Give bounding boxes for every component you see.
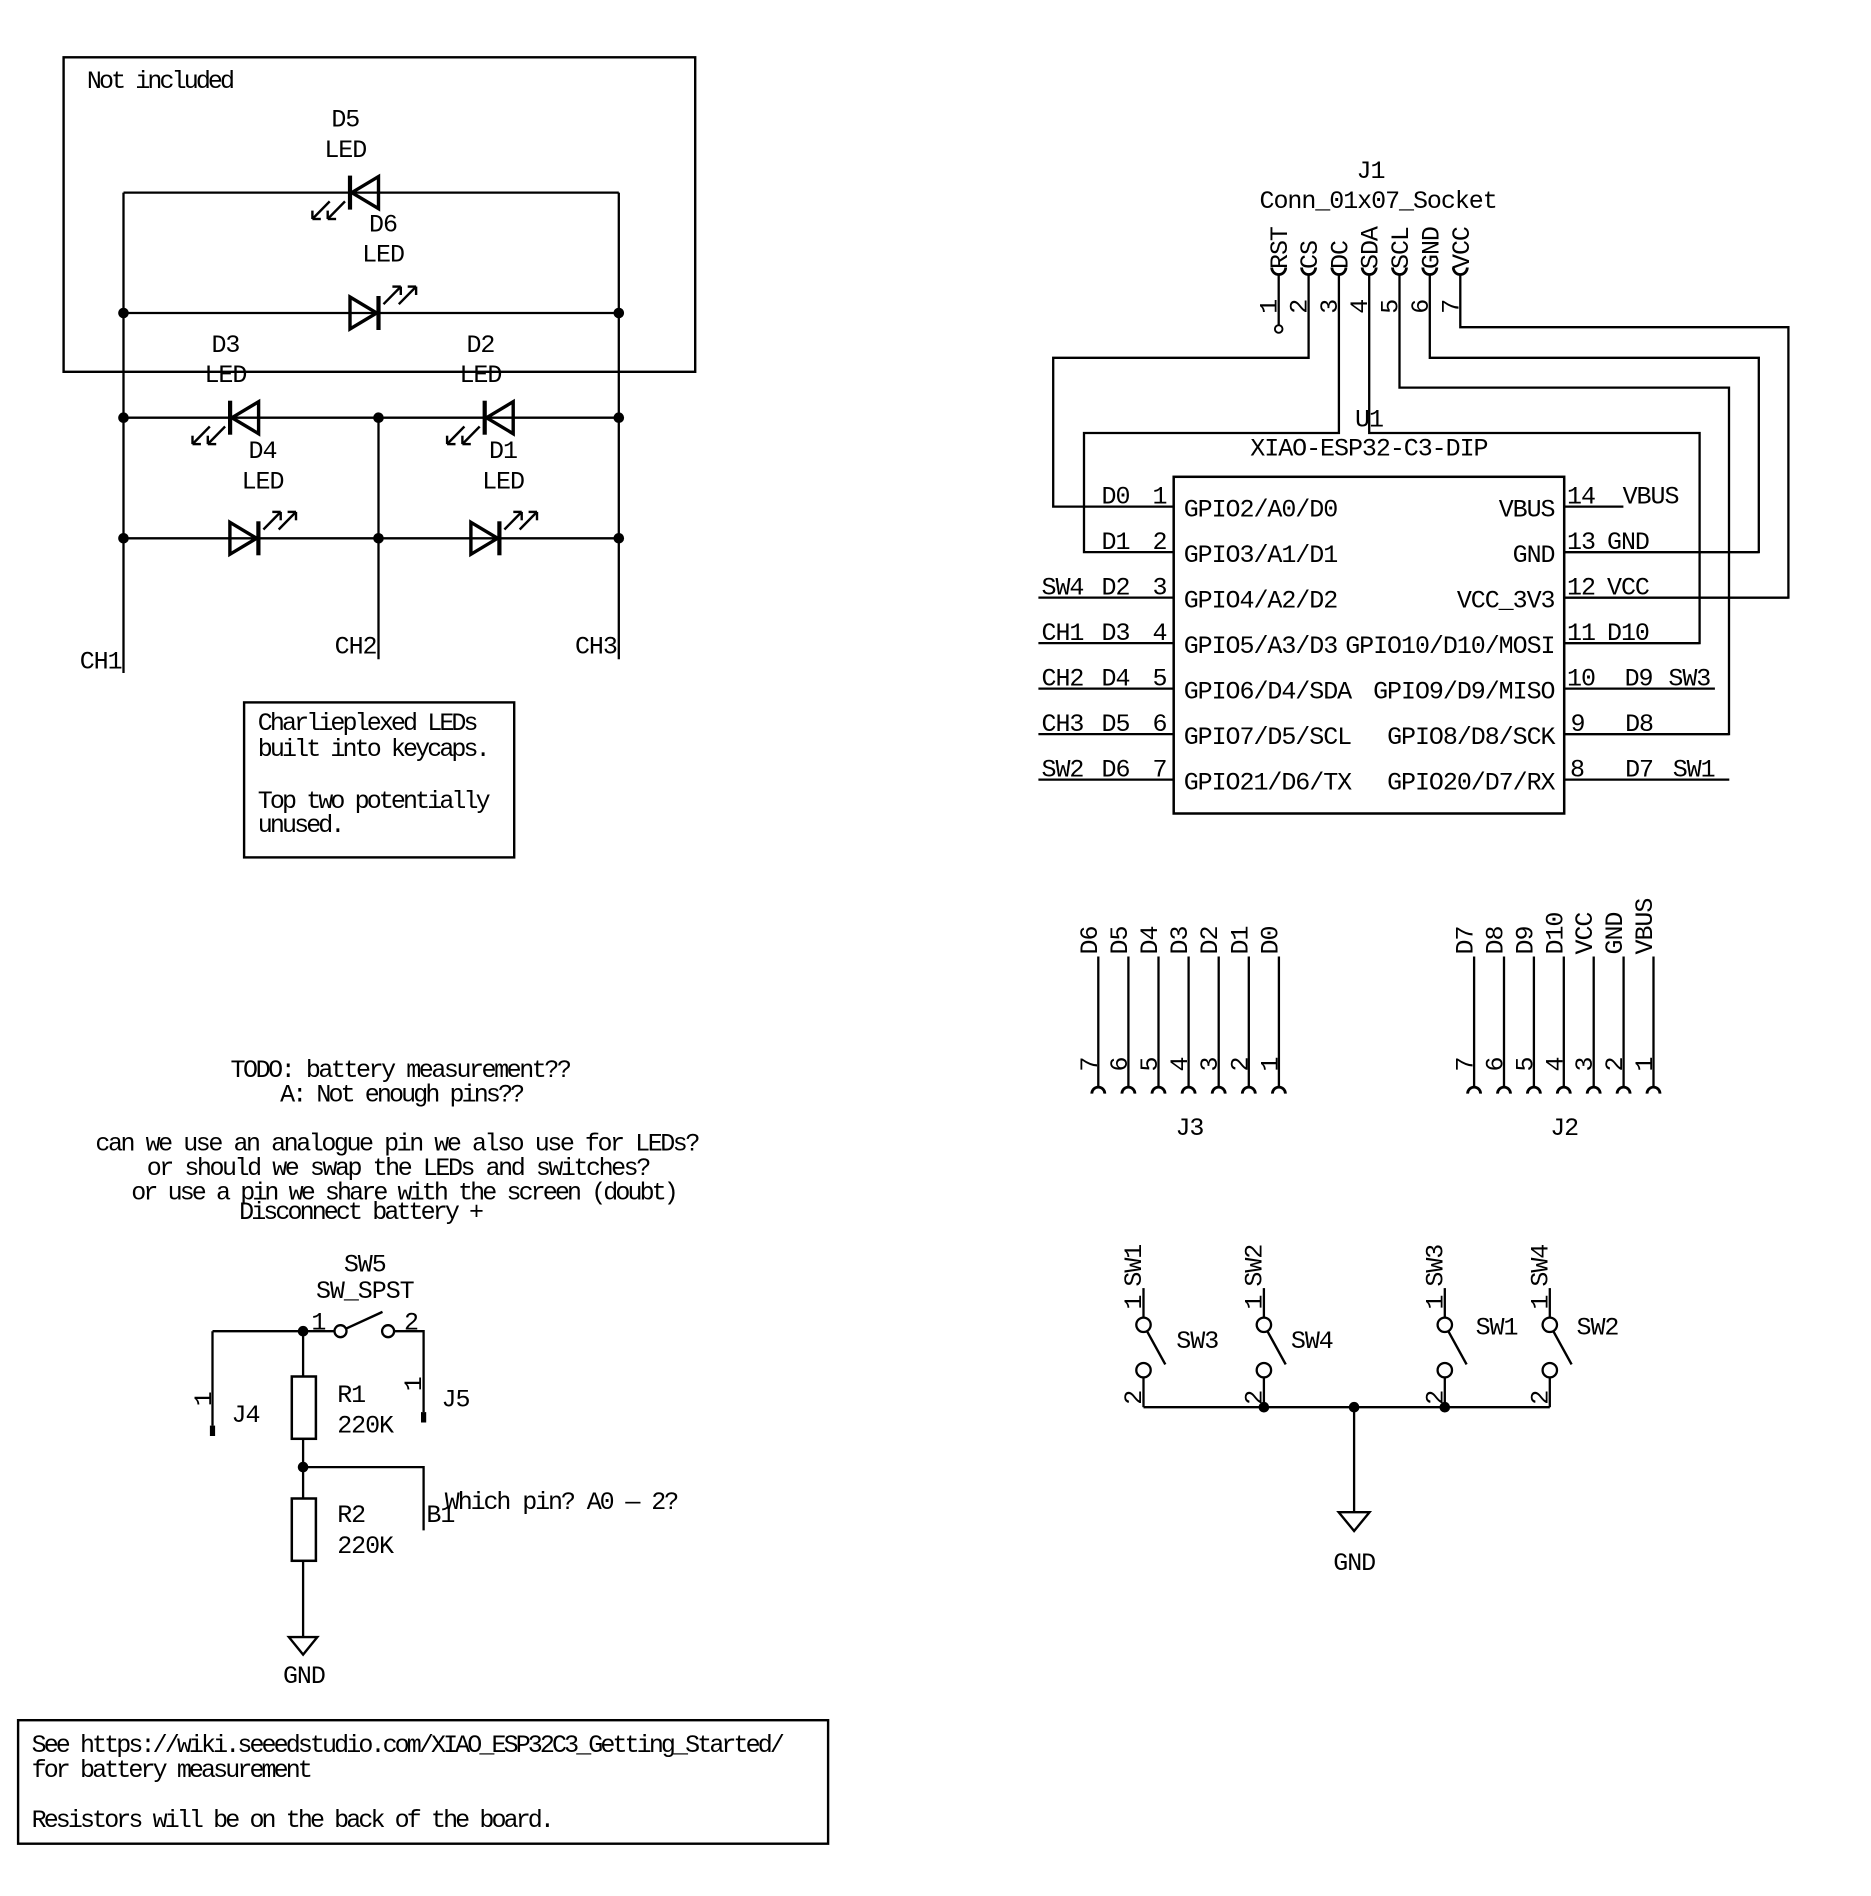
svg-text:SW1: SW1 — [1476, 1314, 1518, 1343]
svg-text:D1: D1 — [489, 437, 517, 466]
svg-text:GND: GND — [1607, 528, 1649, 557]
svg-text:GND: GND — [1417, 227, 1446, 269]
svg-text:D5: D5 — [331, 105, 359, 134]
svg-text:R1: R1 — [337, 1381, 365, 1410]
svg-text:D4: D4 — [1136, 927, 1165, 955]
svg-text:Not included: Not included — [87, 67, 233, 96]
svg-text:GPIO7/D5/SCL: GPIO7/D5/SCL — [1184, 723, 1351, 752]
svg-text:4: 4 — [1346, 300, 1375, 314]
svg-text:CH2: CH2 — [335, 633, 377, 662]
svg-text:CH1: CH1 — [1042, 619, 1084, 648]
svg-text:GPIO6/D4/SDA: GPIO6/D4/SDA — [1184, 677, 1352, 706]
svg-text:GPIO2/A0/D0: GPIO2/A0/D0 — [1184, 495, 1338, 524]
svg-text:7: 7 — [1153, 756, 1167, 785]
svg-text:2: 2 — [1601, 1058, 1630, 1072]
svg-text:SDA: SDA — [1357, 226, 1386, 269]
svg-text:SW2: SW2 — [1577, 1314, 1619, 1343]
svg-text:CH2: CH2 — [1042, 665, 1084, 694]
svg-text:DC: DC — [1326, 241, 1355, 269]
svg-text:VBUS: VBUS — [1631, 899, 1660, 955]
svg-text:D8: D8 — [1482, 927, 1511, 955]
svg-text:D9: D9 — [1511, 927, 1540, 955]
svg-text:R2: R2 — [337, 1501, 365, 1530]
svg-text:2: 2 — [404, 1309, 418, 1338]
svg-text:SW1: SW1 — [1120, 1245, 1149, 1287]
svg-text:SCL: SCL — [1387, 227, 1416, 269]
svg-text:4: 4 — [1541, 1058, 1570, 1072]
svg-text:GND: GND — [1601, 913, 1630, 955]
svg-text:3: 3 — [1571, 1058, 1600, 1072]
svg-text:SW2: SW2 — [1042, 756, 1084, 785]
svg-text:J5: J5 — [442, 1386, 470, 1415]
svg-text:SW_SPST: SW_SPST — [316, 1277, 415, 1306]
svg-text:Disconnect battery +: Disconnect battery + — [239, 1198, 483, 1227]
svg-text:1: 1 — [1240, 1296, 1269, 1310]
svg-text:1: 1 — [1256, 1058, 1285, 1072]
svg-text:Resistors will be on the back: Resistors will be on the back of the boa… — [32, 1806, 552, 1835]
svg-text:8: 8 — [1570, 756, 1584, 785]
svg-text:D3: D3 — [1102, 619, 1130, 648]
svg-text:220K: 220K — [337, 1532, 394, 1561]
svg-text:D3: D3 — [1166, 927, 1195, 955]
svg-text:1: 1 — [1421, 1296, 1450, 1310]
svg-text:unused.: unused. — [258, 811, 343, 840]
svg-text:1: 1 — [1256, 300, 1285, 314]
svg-text:7: 7 — [1076, 1058, 1105, 1072]
svg-text:VCC: VCC — [1448, 227, 1477, 269]
svg-text:7: 7 — [1437, 300, 1466, 314]
svg-text:LED: LED — [362, 241, 404, 270]
svg-text:2: 2 — [1120, 1391, 1149, 1405]
svg-text:D7: D7 — [1625, 756, 1653, 785]
svg-text:D9: D9 — [1625, 665, 1653, 694]
svg-text:D10: D10 — [1607, 619, 1649, 648]
svg-text:RST: RST — [1266, 226, 1295, 269]
svg-text:LED: LED — [242, 467, 284, 496]
svg-text:1: 1 — [1153, 483, 1167, 512]
svg-text:GPIO21/D6/TX: GPIO21/D6/TX — [1184, 768, 1352, 797]
svg-text:GND: GND — [1333, 1549, 1375, 1578]
svg-text:SW2: SW2 — [1240, 1245, 1269, 1287]
svg-text:4: 4 — [1166, 1058, 1195, 1072]
svg-text:D0: D0 — [1102, 483, 1130, 512]
svg-text:CS: CS — [1296, 241, 1325, 269]
svg-text:5: 5 — [1511, 1058, 1540, 1072]
svg-text:VBUS: VBUS — [1623, 483, 1679, 512]
svg-text:VCC: VCC — [1607, 574, 1649, 603]
svg-text:10: 10 — [1567, 665, 1595, 694]
svg-text:1: 1 — [1120, 1296, 1149, 1310]
svg-text:1: 1 — [311, 1309, 325, 1338]
svg-text:CH1: CH1 — [80, 648, 122, 677]
svg-text:2: 2 — [1226, 1058, 1255, 1072]
svg-text:D2: D2 — [1196, 927, 1225, 955]
svg-text:5: 5 — [1377, 300, 1406, 314]
svg-text:6: 6 — [1106, 1058, 1135, 1072]
svg-text:SW5: SW5 — [344, 1251, 386, 1280]
svg-text:CH3: CH3 — [1042, 710, 1084, 739]
svg-text:GPIO4/A2/D2: GPIO4/A2/D2 — [1184, 586, 1338, 615]
svg-text:1: 1 — [1526, 1296, 1555, 1310]
svg-text:13: 13 — [1567, 528, 1595, 557]
svg-text:D1: D1 — [1226, 927, 1255, 955]
svg-text:12: 12 — [1567, 574, 1595, 603]
svg-text:11: 11 — [1567, 619, 1595, 648]
svg-text:D10: D10 — [1541, 913, 1570, 955]
svg-text:XIAO-ESP32-C3-DIP: XIAO-ESP32-C3-DIP — [1250, 435, 1487, 464]
svg-text:GPIO20/D7/RX: GPIO20/D7/RX — [1387, 768, 1555, 797]
svg-text:LED: LED — [204, 361, 246, 390]
svg-text:4: 4 — [1153, 619, 1167, 648]
svg-text:CH3: CH3 — [575, 633, 617, 662]
svg-text:J2: J2 — [1550, 1114, 1578, 1143]
svg-text:VBUS: VBUS — [1499, 495, 1555, 524]
svg-text:for battery measurement: for battery measurement — [32, 1756, 311, 1785]
svg-text:J4: J4 — [232, 1401, 260, 1430]
svg-text:SW1: SW1 — [1673, 756, 1715, 785]
svg-text:Which pin? A0 — 2?: Which pin? A0 — 2? — [445, 1488, 678, 1517]
svg-text:D6: D6 — [369, 211, 397, 240]
svg-text:U1: U1 — [1355, 405, 1383, 434]
svg-text:D2: D2 — [1102, 574, 1130, 603]
svg-text:2: 2 — [1286, 300, 1315, 314]
svg-text:D2: D2 — [466, 331, 494, 360]
svg-text:D3: D3 — [211, 331, 239, 360]
svg-text:1: 1 — [1631, 1058, 1660, 1072]
svg-text:J1: J1 — [1357, 157, 1385, 186]
svg-text:D8: D8 — [1625, 710, 1653, 739]
svg-text:SW3: SW3 — [1176, 1327, 1218, 1356]
svg-text:D7: D7 — [1452, 927, 1481, 955]
svg-text:SW4: SW4 — [1526, 1245, 1555, 1287]
svg-text:220K: 220K — [337, 1412, 394, 1441]
svg-text:J3: J3 — [1175, 1114, 1203, 1143]
svg-text:D5: D5 — [1102, 710, 1130, 739]
svg-text:GND: GND — [283, 1662, 325, 1691]
svg-text:3: 3 — [1316, 300, 1345, 314]
svg-text:A: Not enough pins??: A: Not enough pins?? — [280, 1081, 524, 1110]
svg-text:D1: D1 — [1102, 528, 1130, 557]
svg-text:3: 3 — [1153, 574, 1167, 603]
svg-text:D4: D4 — [1102, 665, 1130, 694]
svg-text:14: 14 — [1567, 483, 1595, 512]
svg-text:LED: LED — [324, 136, 366, 165]
svg-text:7: 7 — [1452, 1058, 1481, 1072]
svg-text:LED: LED — [482, 467, 524, 496]
svg-text:GPIO10/D10/MOSI: GPIO10/D10/MOSI — [1345, 632, 1554, 661]
svg-text:3: 3 — [1196, 1058, 1225, 1072]
svg-text:D4: D4 — [249, 437, 277, 466]
svg-text:D6: D6 — [1102, 756, 1130, 785]
svg-text:SW3: SW3 — [1668, 665, 1710, 694]
svg-text:GND: GND — [1513, 541, 1555, 570]
svg-text:D0: D0 — [1256, 927, 1285, 955]
svg-text:D5: D5 — [1106, 927, 1135, 955]
svg-text:GPIO3/A1/D1: GPIO3/A1/D1 — [1184, 541, 1338, 570]
svg-text:2: 2 — [1153, 528, 1167, 557]
svg-text:1: 1 — [400, 1377, 429, 1391]
svg-text:VCC_3V3: VCC_3V3 — [1457, 586, 1555, 615]
svg-text:LED: LED — [459, 361, 501, 390]
svg-text:5: 5 — [1136, 1058, 1165, 1072]
svg-text:D6: D6 — [1076, 927, 1105, 955]
svg-text:6: 6 — [1407, 300, 1436, 314]
svg-text:Charlieplexed LEDs: Charlieplexed LEDs — [258, 709, 477, 738]
svg-text:GPIO8/D8/SCK: GPIO8/D8/SCK — [1387, 723, 1555, 752]
svg-text:GPIO9/D9/MISO: GPIO9/D9/MISO — [1373, 677, 1554, 706]
svg-text:6: 6 — [1482, 1058, 1511, 1072]
svg-text:2: 2 — [1526, 1391, 1555, 1405]
svg-text:SW4: SW4 — [1291, 1327, 1333, 1356]
svg-text:1: 1 — [190, 1392, 219, 1406]
svg-text:Conn_01x07_Socket: Conn_01x07_Socket — [1260, 187, 1497, 216]
svg-text:5: 5 — [1153, 665, 1167, 694]
svg-text:9: 9 — [1571, 710, 1585, 739]
svg-text:6: 6 — [1153, 710, 1167, 739]
svg-text:VCC: VCC — [1571, 913, 1600, 955]
svg-text:built into keycaps.: built into keycaps. — [258, 735, 488, 764]
svg-text:SW4: SW4 — [1042, 574, 1084, 603]
svg-text:SW3: SW3 — [1421, 1245, 1450, 1287]
svg-text:GPIO5/A3/D3: GPIO5/A3/D3 — [1184, 632, 1338, 661]
